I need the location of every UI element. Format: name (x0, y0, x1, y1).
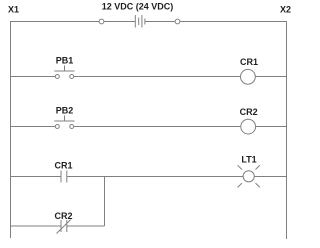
svg-text:PB1: PB1 (56, 56, 74, 66)
battery BT1 (135, 15, 145, 28)
wire rung1 middle (74, 76, 241, 78)
wire rung2 left (11, 126, 56, 128)
wire rung4 left (11, 225, 62, 227)
wire rung1 left (11, 76, 56, 78)
wire branch vertical (104, 177, 106, 227)
svg-text:CR2: CR2 (240, 107, 258, 117)
relay coil CR2 (241, 119, 256, 134)
wire rung3 right (254, 176, 286, 178)
label CR2 coil (240, 107, 258, 117)
contact CR2 (N.C.) (57, 220, 71, 234)
label CR1 coil (240, 57, 258, 67)
label CR2 contact (54, 211, 72, 221)
label PB1 (56, 56, 74, 66)
node X1 label (8, 5, 19, 15)
wire battery to terminal T2 (145, 21, 175, 23)
label PB2 (56, 106, 74, 116)
terminal T2 (175, 19, 180, 24)
right power rail L2 (286, 21, 288, 239)
label CR1 contact (54, 161, 72, 171)
wire rung2 middle (74, 126, 241, 128)
left power rail L1 (10, 21, 12, 238)
wire rung3 left (11, 176, 62, 178)
wire rung2 right (256, 126, 287, 128)
wire terminal T1 to battery (104, 21, 135, 23)
wire top rail left segment (11, 21, 100, 23)
lamp LT1 (238, 165, 260, 187)
wire top rail right segment (180, 21, 287, 23)
svg-text:PB2: PB2 (56, 106, 74, 116)
contact CR1 (N.O.) (61, 171, 67, 183)
svg-text:12 VDC (24 VDC): 12 VDC (24 VDC) (102, 2, 174, 12)
svg-text:CR1: CR1 (240, 57, 258, 67)
pushbutton PB2 (N.O.) (54, 116, 74, 129)
svg-text:CR1: CR1 (54, 161, 72, 171)
pushbutton PB1 (N.O.) (54, 66, 74, 79)
svg-text:CR2: CR2 (54, 211, 72, 221)
wire rung1 right (255, 76, 286, 78)
node X2 label (280, 5, 291, 15)
wire rung4 right (67, 225, 105, 227)
svg-text:X1: X1 (8, 5, 19, 15)
svg-text:LT1: LT1 (241, 155, 256, 165)
terminal T1 (99, 19, 104, 24)
supply label 12 VDC (24 VDC) (102, 2, 174, 12)
relay coil CR1 (241, 69, 256, 84)
label LT1 (241, 155, 256, 165)
wire rung3 middle (67, 176, 244, 178)
svg-text:X2: X2 (280, 5, 291, 15)
